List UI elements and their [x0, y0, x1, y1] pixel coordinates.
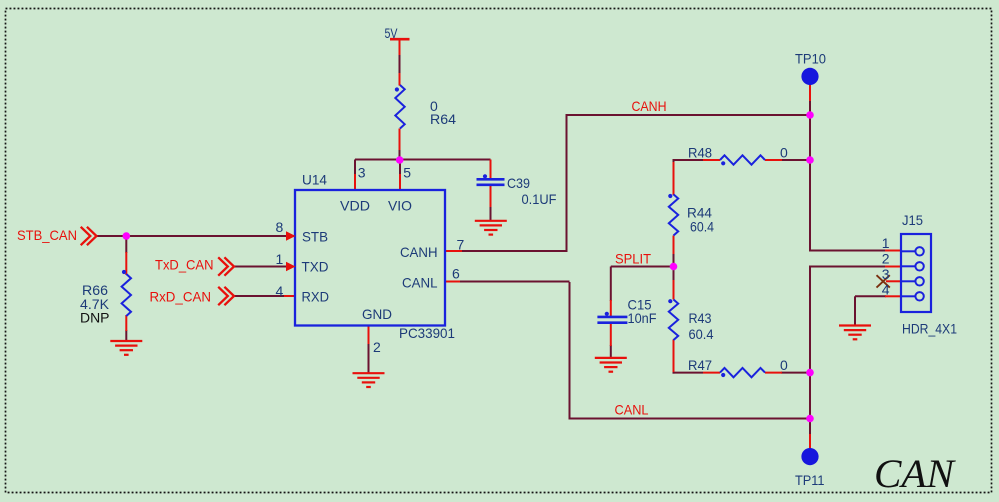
svg-text:2: 2 [882, 251, 890, 267]
svg-text:TXD: TXD [302, 259, 329, 275]
svg-text:RXD: RXD [302, 289, 330, 305]
svg-text:0.1UF: 0.1UF [522, 191, 557, 207]
svg-text:RxD_CAN: RxD_CAN [150, 289, 212, 305]
svg-text:J15: J15 [902, 212, 923, 228]
svg-text:4: 4 [276, 283, 284, 299]
svg-text:C39: C39 [507, 175, 530, 191]
svg-text:R43: R43 [689, 310, 712, 326]
svg-text:PC33901: PC33901 [399, 325, 455, 341]
svg-text:1: 1 [882, 235, 890, 251]
svg-text:STB: STB [302, 228, 328, 244]
svg-text:R48: R48 [688, 144, 712, 160]
svg-text:0: 0 [780, 357, 788, 373]
svg-text:TP11: TP11 [795, 472, 825, 488]
svg-text:VIO: VIO [388, 198, 412, 214]
svg-text:U14: U14 [302, 172, 327, 188]
svg-text:5V: 5V [385, 25, 399, 41]
svg-text:60.4: 60.4 [690, 219, 714, 235]
svg-text:CANH: CANH [632, 98, 667, 114]
svg-text:10nF: 10nF [628, 310, 657, 326]
svg-text:CAN: CAN [874, 451, 956, 496]
svg-text:0: 0 [780, 145, 788, 161]
svg-text:4: 4 [882, 282, 890, 298]
svg-text:2: 2 [373, 339, 381, 355]
svg-text:CANL: CANL [615, 402, 649, 418]
svg-text:5: 5 [403, 164, 411, 180]
svg-text:CANL: CANL [402, 274, 438, 290]
svg-text:7: 7 [457, 236, 465, 252]
svg-text:TxD_CAN: TxD_CAN [155, 257, 214, 273]
svg-text:R64: R64 [430, 111, 456, 127]
svg-text:3: 3 [358, 164, 366, 180]
svg-text:60.4: 60.4 [689, 326, 714, 342]
svg-text:STB_CAN: STB_CAN [17, 227, 77, 243]
svg-text:DNP: DNP [80, 310, 110, 326]
svg-text:6: 6 [452, 265, 460, 281]
svg-text:GND: GND [362, 306, 392, 322]
svg-text:HDR_4X1: HDR_4X1 [902, 321, 957, 337]
svg-text:1: 1 [276, 251, 284, 267]
svg-text:TP10: TP10 [795, 51, 826, 67]
svg-text:R47: R47 [688, 357, 712, 373]
svg-text:CANH: CANH [400, 244, 438, 260]
svg-text:3: 3 [882, 266, 890, 282]
svg-text:8: 8 [276, 219, 284, 235]
svg-text:VDD: VDD [340, 198, 370, 214]
svg-text:SPLIT: SPLIT [615, 251, 651, 267]
